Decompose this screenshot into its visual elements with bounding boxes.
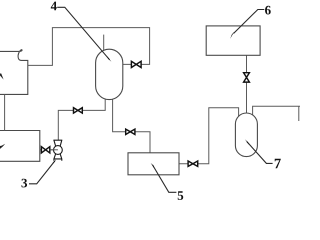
label 6 leader line with arrow tip into box 6 — [234, 10, 265, 34]
label 7 — [275, 159, 281, 168]
vessel 4 (vertical capsule drum) — [96, 49, 123, 99]
valve A (gate valve right of vessel 4) — [131, 61, 141, 67]
tank 1 (upper-left vessel, cut off at image edge, with break-wave on top edge) — [0, 50, 28, 95]
pipe: tank1 outlet up-and-over to valve then vessel 4 right nozzle — [28, 28, 150, 66]
pipe: vessel 4 bottom-left down, left to pump riser, down to pump — [58, 97, 105, 140]
valve B (gate valve on pump discharge line) — [74, 108, 83, 113]
label 4 — [51, 2, 57, 11]
valve E (vertical gate valve below box 6) — [244, 73, 250, 82]
tank 2 (lower-left vessel, cut off at image edge) — [0, 131, 40, 162]
pipe: stub into vessel 4 top (gap below overhead line) — [103, 35, 105, 50]
pipe: vessel 7 right nozzle out to right edge and short drop — [253, 106, 300, 121]
pump 3 top flange and bonnet — [53, 140, 62, 146]
pipe: tank 1 bottom to tank 2 top — [4, 94, 6, 130]
leader arrow tip inside tank 2 (cut off) — [0, 144, 5, 151]
valve C (pump suction valve) — [41, 147, 49, 153]
pipe: vessel 4 bottom-right down, right through valve, down into box 5 top — [113, 98, 150, 153]
pipe: box 6 bottom down through vertical valve into vessel 7 top — [246, 55, 248, 113]
pump 3 bottom flange and bonnet — [53, 154, 62, 161]
box 5 (horizontal process unit) — [128, 153, 179, 175]
leader arrow tip inside tank 1 (leader cut off at left edge) — [0, 73, 4, 79]
box 6 (top-right process unit) — [206, 26, 260, 55]
pipe: tank 2 outlet to suction valve and pump — [40, 149, 54, 151]
label 4 leader line with arrow tip into vessel 4 — [57, 7, 109, 59]
pump 3 (circle body) — [54, 146, 63, 155]
pipe: box 5 outlet right, up riser, over to vessel 7 left nozzle — [179, 108, 239, 164]
label 5 leader line with arrow tip into box 5 — [153, 165, 177, 192]
valve F (gate valve on line to box 5) — [126, 129, 135, 134]
label 3 leader line with arrow tip to pump — [29, 161, 55, 184]
label 6 — [265, 6, 271, 15]
label 7 leader line with arrow tip into vessel 7 — [247, 142, 273, 164]
label 5 — [178, 191, 184, 200]
label 3 — [21, 179, 27, 188]
pump 3 suction line drawn to pump centre — [50, 149, 58, 151]
vessel 7 (vertical capsule drum) — [235, 113, 257, 157]
valve D (gate valve right of box 5) — [188, 161, 198, 166]
